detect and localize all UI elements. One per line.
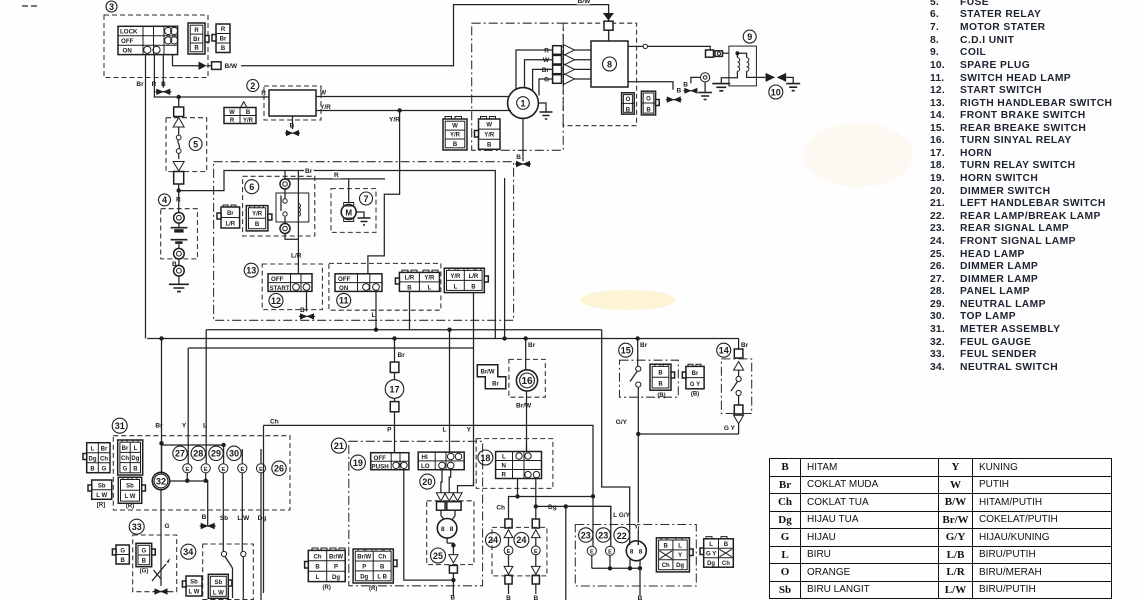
node Br 16 [524,336,528,340]
wire block1 to bus [409,291,411,329]
node 18 Ch [515,494,519,498]
node head lamp bottom [451,543,455,547]
wire L bus to dimmer [449,330,451,452]
spark gap arrows [766,73,794,84]
rear lamp 22 [626,541,646,569]
switch 13 dashed box [262,264,322,310]
node fuse bottom junction [177,188,181,192]
ground pickup coil [698,82,712,100]
rear lamp dash-dot box 22/23 [575,525,696,587]
front signal dashed box [492,527,547,576]
label circle 13 [244,263,258,277]
lamp 26 [256,449,265,600]
connector block W/YR/B left [443,117,467,151]
wire Dg down [565,506,567,600]
bus G/Y brake [638,433,738,435]
connector bowtie B/W [199,62,207,70]
connector block key B (R/Br/B) [212,24,230,53]
node L dimmer [447,328,451,332]
wire B regulator down [292,116,294,129]
connector block 33 G/B inner [136,543,155,566]
wire Dg corner to 23b [566,505,611,507]
bus Ch tail [264,425,594,496]
fuel sender 33 dashed box [133,535,177,592]
wire block2 Y down [473,293,475,486]
fuel gauge 32 [152,472,169,489]
rear signal lamp 23b [605,506,614,568]
battery ground terminal ring [174,259,185,276]
wire B/W long run to CDI [241,5,609,66]
turn relay switch 18 block [496,452,542,479]
regulator 2 dashed box [264,86,321,120]
connector block rear L-B-GY [700,537,733,568]
label circles 23 23 22 [579,528,593,542]
node 22 left bottom [628,566,632,570]
label circle 18 [478,450,493,465]
rear brake switch 15 dash-dot box [620,360,679,397]
node 23b bottom [608,566,612,570]
wire O out of CDI [628,45,643,47]
chassis ground B ignition [155,89,171,95]
top-left corner mark [22,5,38,7]
paper tint blob [580,290,676,310]
fuse 5 dashed box [166,118,207,172]
wire B/W from ignition [173,55,199,66]
lamp 27 [183,464,192,480]
wire R alternator to diode [516,50,553,90]
wire B rear down [639,568,641,595]
starter relay 6 dashed box [243,176,315,236]
rear brake switch 15 contacts [630,339,641,435]
chassis ground regulator [285,130,300,136]
node lamp29 top [221,443,225,447]
wire Y left drop to lamp27 [186,348,189,464]
chassis ground meter B [200,523,216,529]
chassis ground CDI B [666,96,682,102]
horn 17 [385,362,404,453]
bullet connector coil [706,50,729,57]
wire meter top tie [162,443,224,472]
head lamp 25 bulb [437,510,457,543]
node Br relay join [502,336,506,340]
node B head lamp [451,578,455,582]
turn signal relay 16 dashed box [509,359,545,397]
wire R to starter relay [179,171,285,191]
alternator 1 circle [508,88,539,119]
node Br horn [392,336,396,340]
chassis ground alternator B [515,161,531,167]
connector block CDI O/B 1 [622,93,635,114]
connector block Br/W stepped [477,365,506,389]
connector block W/YR/B right [475,117,501,150]
label circle 15 [619,343,633,357]
CDI 8 dashed box [563,23,636,126]
connector block LR-YR/B-L [395,270,439,291]
wire Y/R regulator to alternator [316,110,511,112]
bus rear lamp bottoms [592,567,640,569]
ignition switch grid [118,26,178,54]
label circle 11 [337,293,351,307]
label circle 8 [603,57,617,71]
wire B start switch [306,291,308,311]
relay 6 bottom terminal [280,224,290,234]
wire L/R relay to start switch [285,234,298,240]
front signal lamp 24b [531,506,540,594]
CDI fuse arrow top [603,13,614,21]
meter assembly 31 dashed box [113,436,290,510]
regulator 2 label circle [247,80,259,92]
label circle 26 [272,461,286,475]
relay 6 top terminal [280,179,290,189]
label circle 6 [245,180,259,194]
connector block rear B-L-Y [656,538,693,572]
wire Br from ignition down to bus [145,55,147,339]
wire aux vertical [504,178,506,339]
fuse 5 symbol [173,97,184,191]
fuel sender variable resistor [152,556,170,586]
label circle 20 [420,474,435,489]
label circle 14 [717,343,731,357]
head lamp bottom diode [447,543,458,596]
wire Ch meter drop [263,425,265,593]
wire L bus right drop [602,330,630,546]
connector block meter 6way inner [118,440,143,475]
relay 6 contact box [276,189,309,228]
wire 18 Dg out [535,479,537,507]
ground coil primary [712,84,730,91]
battery 4 [171,191,188,259]
label circle 12 [269,294,283,308]
coil 9 box [729,46,757,86]
node L switch11 [374,328,378,332]
connector block 15 Br/GY [682,364,704,389]
node coil top [735,51,739,55]
label circle 10 [769,85,783,99]
wire Br relay to right [285,171,495,339]
connector block regulator (W B / R Y/R) [224,102,256,125]
ground alternator right [538,103,552,119]
head lamp 25 dashed box [427,501,474,565]
bus Y headlight [188,347,473,349]
lamp 29 [219,445,228,551]
connector block 34 Sb outer [182,576,202,596]
left handlebar 21 dash-dot box [349,441,483,586]
diode Br [553,64,591,75]
node G/Y junction [636,432,640,436]
node Y/R drop to switch 11 [397,108,401,112]
label circle 4 [159,194,171,206]
connector block YR-LR/L-B [444,268,488,292]
connector block key A (R/Br/B) [188,23,209,54]
motor starter M [341,203,356,222]
rear signal lamp 23a [587,496,596,568]
node Br 15 [636,336,640,340]
wire Br/W relay 16 down [526,391,528,452]
node Dg [534,504,538,508]
wire L head lamp switch down [375,291,377,329]
connector block meter 6way outer [83,443,110,473]
node O ring [643,44,647,48]
label circle 33 [129,519,144,534]
head lamp diode Y [453,493,462,501]
wire Br to relay 16 [525,339,527,370]
wire B from ignition [162,55,164,88]
wire O to coil [648,46,711,50]
node Br meter in [159,441,163,445]
wire G/Y down to rear lamp [637,434,639,545]
wire R to motor starter [285,179,385,203]
front signal lamp 24a [504,519,513,594]
label circle 34 [181,544,196,559]
label circle 3 [106,1,117,12]
regulator 2 box [269,90,316,116]
head lamp switch 11 block [335,274,382,292]
node R fuse junction [177,95,181,99]
label circle 9 [743,30,756,43]
wire Y/R down to head lamp switch [368,111,400,274]
diode W [553,54,591,65]
wire horn switch to head lamp B [404,470,454,580]
wire Ch to rear [518,496,594,498]
wire Ch to front signal [509,497,518,520]
chassis ground start switch [299,313,315,319]
connector block CDI O/B 2 [641,91,659,115]
connector block 15 B/B [650,364,675,390]
wire B alternator down [522,118,524,161]
horn switch 19 block [371,453,409,471]
relay 6 coil [298,204,300,217]
wire lamp tie to fuel gauge [170,480,208,526]
lamp 30 [238,449,247,551]
label circle 5 [189,138,202,151]
front brake switch 14 dash-dot box [721,359,751,414]
front brake switch 14 chain [731,349,744,434]
wire 18 Ch out [517,479,519,497]
neutral switch 34 dashed box [203,544,254,600]
head lamp plug boxes [437,502,462,511]
wire L bus left drop to meter [205,330,207,464]
CDI unit 8 box [591,41,628,87]
wire W alternator to diode [525,60,553,88]
coil 9 windings [721,53,756,83]
horn 17 wire from bus [394,339,396,363]
wire dimmer LO to head lamp [441,470,474,493]
node lamp27 bottom [185,479,189,483]
connector block bottom Ch/B/L [305,548,346,582]
bus Br main [147,338,738,340]
diode R [553,45,591,56]
connector block meter Sb outer [88,480,112,499]
connector block YR/B relay [246,206,272,231]
chassis ground fuel sender [154,588,169,594]
label circle 25 [431,548,446,563]
wire Br meter drop [161,339,163,474]
label circle 21 [331,438,346,453]
wire W regulator to alternator [316,96,508,98]
ground battery [169,276,189,292]
right handlebar dash-dot box [214,162,514,321]
node lamp28 bottom [204,479,208,483]
wire G alternator to diode [539,79,553,96]
pickup coil circle [691,73,710,84]
ground motor [356,212,370,225]
dimmer switch 20 block [418,452,464,470]
wire B out of CDI [628,82,673,90]
neutral switch contacts [221,551,246,600]
ground spare plug [786,84,800,91]
connector block bottom Br/W-P-Dg [353,549,397,583]
connector block 34 Sb inner [208,574,232,598]
label circle 7 [360,192,373,205]
bus L main [206,329,602,331]
alternator 1 dash-dot box [472,23,564,150]
label circles 27 28 29 30 [173,446,187,460]
head lamp diode mid [445,493,454,501]
paper tint blob 2 [803,123,913,187]
connector block meter Sb inner [118,477,145,503]
wire coil HT out [756,76,765,78]
battery 4 dashed box [161,209,198,259]
motor starter 7 dashed box [331,189,376,233]
turn relay switch 18 dashed box [476,439,553,489]
lamp 28 [201,464,210,480]
wire Br vertical relay coil [297,171,299,274]
turn signal relay 16 circle [516,370,537,391]
bus Dg rear [536,506,611,520]
head lamp switch 11 dashed box [329,263,441,310]
node 23a top [591,494,595,498]
head lamp diode L [436,493,445,501]
label circle 19 [350,455,365,470]
node Br meter [159,336,163,340]
ignition switch box 3 dashed [104,15,208,78]
chassis ground pickup [683,88,697,94]
connector block Br/LR relay [217,205,240,228]
plug box B/W [212,62,221,70]
wire Br alternator to diode [533,69,553,91]
start switch 12 block [268,274,312,292]
CDI fuse plug box [604,21,613,30]
diode G [553,74,591,85]
wire 16 to 18 [526,445,528,452]
node Dg drop [564,504,568,508]
label circles 24 [486,532,501,547]
node 22 right bottom [638,566,642,570]
wire R from ignition [154,55,269,97]
connector block 33 G/B outer [112,545,129,564]
wire G fuel gauge down [160,490,162,556]
label circle 31 [112,418,127,433]
wire Br 14 drop [738,339,740,350]
